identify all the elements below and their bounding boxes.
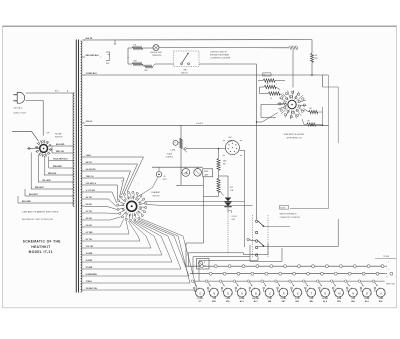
wire y196.5 from x203 xyxy=(204,196,219,198)
svg-text:RED-WHT: RED-WHT xyxy=(35,187,45,189)
svg-text:SCHEMATIC OF THE: SCHEMATIC OF THE xyxy=(23,239,61,243)
wire fil switch to fil test xyxy=(137,177,158,197)
svg-text:LINE: LINE xyxy=(232,219,235,221)
svg-text:RED-YEL: RED-YEL xyxy=(56,151,65,153)
socket 13 xyxy=(362,288,371,297)
svg-text:SHOWN IN 'OFF' POSITION: SHOWN IN 'OFF' POSITION xyxy=(22,219,53,221)
svg-text:CONTROL SWITCH: CONTROL SWITCH xyxy=(210,51,227,53)
long wire y40 xyxy=(84,39,312,41)
selenium rectifier D1 xyxy=(225,198,232,202)
svg-text:12 PIN: 12 PIN xyxy=(197,298,203,300)
svg-text:A: A xyxy=(380,291,382,295)
svg-text:1.4: 1.4 xyxy=(270,98,272,100)
svg-text:B: B xyxy=(255,291,257,295)
svg-text:6.3 TAN: 6.3 TAN xyxy=(86,231,93,234)
plate control pot xyxy=(180,138,183,149)
svg-text:4 50-60: 4 50-60 xyxy=(86,120,92,123)
svg-text:HI LINE: HI LINE xyxy=(55,134,62,136)
socket 11 xyxy=(335,288,344,297)
svg-text:6800: 6800 xyxy=(223,160,227,162)
socket 4 xyxy=(237,288,246,297)
CAL pot R9 xyxy=(217,178,220,192)
svg-text:6X4: 6X4 xyxy=(229,137,232,139)
resistor R3 2200 diagonal xyxy=(143,64,145,67)
svg-text:SWITCH SHOWN IN: SWITCH SHOWN IN xyxy=(280,213,297,215)
AC line plug xyxy=(17,92,25,103)
svg-text:TO GRID: TO GRID xyxy=(383,256,389,258)
svg-text:AL 8: AL 8 xyxy=(240,300,244,303)
wire pot to socket xyxy=(187,148,226,150)
wires fil switch right to lever column xyxy=(145,201,245,203)
svg-text:COUNTERCLOCKWISE: COUNTERCLOCKWISE xyxy=(210,57,231,59)
socket 1 xyxy=(196,288,205,297)
bus3 contacts and arrows xyxy=(191,280,193,282)
transformer T1 secondary winding xyxy=(81,41,82,292)
svg-text:4 50-60 V: 4 50-60 V xyxy=(196,123,204,125)
svg-text:S: S xyxy=(297,291,299,295)
6X4 socket V1 xyxy=(225,141,239,155)
transformer T1 core xyxy=(75,40,77,293)
svg-text:SWITCH: SWITCH xyxy=(55,137,63,139)
wire y167 xyxy=(152,166,203,168)
svg-text:G: G xyxy=(227,291,229,295)
wires into line switch xyxy=(27,147,39,149)
svg-text:F: F xyxy=(175,143,176,145)
svg-text:BLK-GRN: BLK-GRN xyxy=(22,201,31,203)
note box xyxy=(280,206,289,210)
svg-text:N: N xyxy=(213,291,215,295)
socket bus wires xyxy=(186,265,386,267)
svg-text:4.2 250: 4.2 250 xyxy=(86,217,92,220)
socket 7 xyxy=(279,288,288,297)
svg-text:4.2 800: 4.2 800 xyxy=(86,203,92,206)
socket 5 xyxy=(251,288,260,297)
svg-text:WW: WW xyxy=(315,58,319,60)
svg-text:750: 750 xyxy=(266,83,269,85)
svg-text:FIL: FIL xyxy=(164,176,166,178)
vertical x244.5 xyxy=(239,150,244,247)
svg-text:AL 2: AL 2 xyxy=(254,300,258,303)
resistor R6 right of switch xyxy=(304,109,309,112)
wire x256 down xyxy=(256,64,258,220)
svg-text:O: O xyxy=(199,291,201,295)
svg-text:HEATHKIT: HEATHKIT xyxy=(31,245,50,249)
dashed enclosure xyxy=(174,51,200,67)
hash marks shield xyxy=(290,46,291,50)
vertical x203.5 xyxy=(203,177,205,243)
svg-text:MODEL IT-21: MODEL IT-21 xyxy=(29,250,53,254)
svg-text:115-125: 115-125 xyxy=(232,216,238,218)
svg-text:TUBE SWITCH SHOWN: TUBE SWITCH SHOWN xyxy=(284,134,305,136)
rotary filament switch xyxy=(127,201,137,211)
socket 12 xyxy=(349,288,358,297)
hook wires lower taps to switch bottom xyxy=(85,212,118,214)
transformer T1 secondary tap stubs and labels xyxy=(82,39,85,41)
lever contacts xyxy=(255,220,257,222)
svg-text:"TUBE TEST" POSITION: "TUBE TEST" POSITION xyxy=(280,217,301,219)
svg-text:4.4 570: 4.4 570 xyxy=(86,161,92,164)
svg-text:RESISTOR: RESISTOR xyxy=(153,55,163,57)
svg-text:115 V.A.C.: 115 V.A.C. xyxy=(14,106,24,109)
label 115-125 line xyxy=(229,211,232,214)
svg-text:25K: 25K xyxy=(309,108,312,110)
svg-text:TEST: TEST xyxy=(163,179,167,181)
svg-text:SWITCH: SWITCH xyxy=(181,72,188,74)
svg-text:H: H xyxy=(352,291,354,295)
svg-text:D: D xyxy=(366,291,368,295)
svg-text:WITH FRONT ON: WITH FRONT ON xyxy=(287,137,302,139)
switch drop wires to primary taps xyxy=(51,146,53,153)
svg-text:LOCTAL: LOCTAL xyxy=(252,297,259,300)
pilot lamp xyxy=(194,169,202,177)
svg-text:15K: 15K xyxy=(307,121,310,123)
socket 3 xyxy=(223,288,232,297)
wire subcircuit bottom continues right xyxy=(199,63,257,65)
svg-text:SHORT TEST: SHORT TEST xyxy=(386,284,395,286)
wire to line switch enclosure xyxy=(155,63,174,65)
svg-text:7 800-1.4: 7 800-1.4 xyxy=(86,175,95,178)
wire from hash down to switch xyxy=(292,50,294,88)
socket 9 xyxy=(307,288,316,297)
svg-text:SHOWN IN EXTREME: SHOWN IN EXTREME xyxy=(210,54,230,56)
transformer T1 primary winding xyxy=(73,93,74,206)
svg-text:OFF: OFF xyxy=(47,132,50,134)
meter M1 xyxy=(182,169,190,177)
vertical x328 long xyxy=(328,75,330,209)
long wire y125 xyxy=(84,124,329,126)
branch to rectifier column xyxy=(219,176,229,197)
socket 8 xyxy=(293,288,302,297)
svg-text:FILAMENT: FILAMENT xyxy=(152,191,162,194)
svg-text:M: M xyxy=(338,291,340,295)
lever switch dashed guides xyxy=(252,215,254,258)
bus contact circles xyxy=(200,265,203,268)
rotary tube-type switch xyxy=(288,100,296,108)
resistor R4 40K WW xyxy=(311,40,313,53)
resistor network 750 left of tube switch xyxy=(264,85,276,88)
svg-text:A: A xyxy=(241,291,243,295)
resistor R7 xyxy=(307,123,316,126)
bus risers and nested connectors xyxy=(185,243,187,266)
resistor R2 100K bottom xyxy=(128,63,132,65)
resistor R5 40ohm with box label xyxy=(263,73,272,76)
right side connections xyxy=(290,208,329,210)
svg-text:P: P xyxy=(283,291,285,295)
toggle line switch xyxy=(181,63,183,65)
svg-text:BLK-RED: BLK-RED xyxy=(56,144,65,146)
svg-text:FUSE: FUSE xyxy=(204,171,208,173)
svg-text:RED-BLK: RED-BLK xyxy=(48,173,57,175)
svg-text:1: 1 xyxy=(138,184,139,186)
svg-text:50/60 CYCLE: 50/60 CYCLE xyxy=(14,112,27,114)
svg-text:LINE AND FILAMENT SWITCHES: LINE AND FILAMENT SWITCHES xyxy=(22,211,59,214)
svg-text:BLK-WHT: BLK-WHT xyxy=(29,194,38,196)
vertical x338 xyxy=(337,87,339,143)
wire below rectifier xyxy=(227,207,229,212)
svg-text:RED-WHT-BLK: RED-WHT-BLK xyxy=(86,55,100,57)
svg-text:4.2 700: 4.2 700 xyxy=(86,196,92,199)
svg-text:CONTROL: CONTROL xyxy=(166,156,174,158)
socket 6 xyxy=(265,288,274,297)
capacitor bracket at tap xyxy=(106,52,110,61)
arrow wire y185 xyxy=(177,185,204,187)
svg-text:2200: 2200 xyxy=(144,70,148,72)
wires from lever right xyxy=(264,226,290,228)
svg-text:RED-BRN: RED-BRN xyxy=(53,166,62,168)
svg-text:E: E xyxy=(325,291,327,295)
socket 10 xyxy=(321,288,330,297)
fuse lamp box xyxy=(203,169,213,177)
socket 14 xyxy=(376,288,385,297)
box around lever bottom xyxy=(250,245,282,262)
svg-text:YEL-GRN: YEL-GRN xyxy=(42,180,51,182)
svg-text:OCTAL: OCTAL xyxy=(239,297,245,300)
svg-text:OCTAL: OCTAL xyxy=(322,297,328,300)
vertical x181 xyxy=(180,125,182,185)
wires around tube switch xyxy=(261,104,284,106)
svg-text:NEON & 100K: NEON & 100K xyxy=(151,52,163,54)
roll chart lamp box xyxy=(197,259,210,270)
svg-text:40: 40 xyxy=(264,75,266,77)
socket 2 xyxy=(210,288,219,297)
svg-text:POT: POT xyxy=(230,187,233,189)
long wire y75 xyxy=(84,74,329,76)
wire plug to transformer primary top xyxy=(26,92,75,94)
svg-text:9 BLK-WHT-BLU: 9 BLK-WHT-BLU xyxy=(53,159,68,161)
wire plug to line switch xyxy=(26,101,44,136)
svg-text:AL 8: AL 8 xyxy=(365,300,369,303)
svg-text:NOTE: NOTE xyxy=(281,207,285,209)
wire neon right long xyxy=(159,47,289,49)
fil test lamp xyxy=(156,172,162,178)
wire lever contact to x338 xyxy=(258,219,338,247)
fan wires upper-left taps to switch xyxy=(85,157,144,192)
svg-text:OCTAL: OCTAL xyxy=(364,297,370,300)
rotary line-voltage switch xyxy=(40,145,48,153)
svg-text:C: C xyxy=(269,291,271,295)
left branch wire with arrow xyxy=(127,48,129,64)
neon lamp NE-2 xyxy=(153,45,159,51)
vertical x322 xyxy=(322,75,324,87)
resistor R1 47K top xyxy=(128,47,132,49)
resistor R8 6800 xyxy=(218,149,220,159)
svg-text:AL 8: AL 8 xyxy=(323,300,327,303)
svg-text:OCTAL: OCTAL xyxy=(281,297,287,300)
fuse F1 xyxy=(173,140,178,145)
svg-text:SWITCH: SWITCH xyxy=(153,195,161,197)
